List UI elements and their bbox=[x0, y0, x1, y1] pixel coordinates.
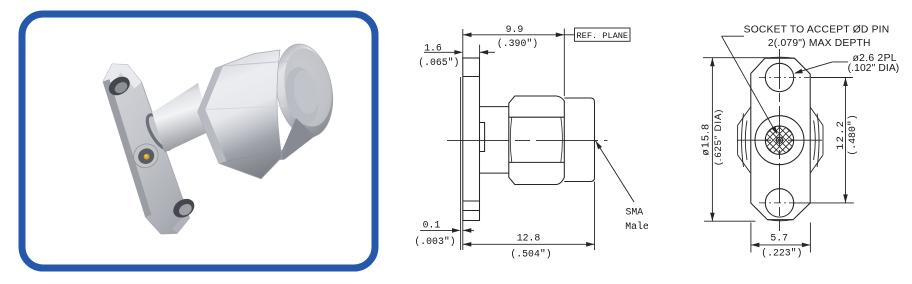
dim 12.2 bbox=[811, 77, 853, 79]
svg-text:ø15.8: ø15.8 bbox=[700, 123, 712, 156]
svg-text:2(.079") MAX DEPTH: 2(.079") MAX DEPTH bbox=[768, 38, 871, 49]
dim 9.9 bbox=[463, 34, 564, 36]
bottom mounting hole bbox=[765, 189, 793, 217]
top mounting hole bbox=[765, 63, 793, 91]
photo frame bbox=[22, 14, 375, 268]
end cap bore shadow bbox=[281, 65, 323, 128]
flange bottom edge strip bbox=[172, 215, 190, 234]
flange left edge strip bbox=[103, 79, 152, 217]
svg-text:SOCKET TO ACCEPT ØD PIN: SOCKET TO ACCEPT ØD PIN bbox=[744, 25, 890, 36]
svg-text:12.2: 12.2 bbox=[835, 120, 847, 150]
0.1 step face bbox=[460, 77, 462, 250]
svg-text:(.003″): (.003″) bbox=[414, 236, 455, 247]
flange outline front bbox=[751, 58, 810, 220]
front view vertical centerline bbox=[779, 49, 781, 231]
end cap rim line bbox=[269, 39, 339, 141]
dim 0.1 bbox=[420, 229, 452, 231]
svg-text:9.9: 9.9 bbox=[506, 24, 524, 35]
dim 1.6 bbox=[479, 45, 481, 58]
ref plane box bbox=[563, 29, 565, 97]
svg-text:(.102" DIA): (.102" DIA) bbox=[848, 63, 900, 74]
interface circles bbox=[755, 116, 804, 165]
hex facet lines bbox=[509, 116, 565, 118]
dim 5.7 bbox=[750, 223, 752, 253]
side view centerline bbox=[447, 139, 608, 141]
flange top/bottom arcs bbox=[767, 57, 794, 58]
svg-text:(.390″): (.390″) bbox=[497, 38, 538, 49]
flange plate side bbox=[463, 58, 480, 221]
svg-text:12.8: 12.8 bbox=[517, 232, 541, 243]
svg-text:5.7: 5.7 bbox=[770, 232, 788, 243]
socket note leader bbox=[722, 35, 744, 37]
end cap face bbox=[278, 45, 337, 131]
svg-text:(.065″): (.065″) bbox=[418, 57, 459, 68]
hex facet edges bbox=[223, 61, 288, 66]
hex bulge left bbox=[737, 125, 739, 154]
svg-text:0.1: 0.1 bbox=[423, 220, 441, 231]
svg-text:(.223″): (.223″) bbox=[761, 248, 802, 259]
svg-text:REF. PLANE: REF. PLANE bbox=[577, 31, 629, 41]
barrel bbox=[480, 106, 509, 108]
hex bulge right bbox=[822, 125, 824, 154]
hex-cap lower junction fill bbox=[278, 118, 315, 160]
end cylinder bbox=[564, 98, 594, 182]
flange hole top bbox=[105, 73, 133, 99]
flange plate face bbox=[103, 64, 190, 234]
hex body bbox=[509, 96, 565, 185]
center boss bbox=[129, 139, 163, 172]
dielectric crosshatch bbox=[734, 120, 825, 160]
connector 3d render bbox=[103, 39, 340, 234]
end cap body bbox=[269, 39, 339, 141]
barrel junction shadow bbox=[143, 111, 177, 153]
svg-text:(.480″): (.480″) bbox=[847, 114, 858, 155]
svg-text:Male: Male bbox=[625, 221, 649, 232]
flange top edge strip bbox=[103, 64, 142, 89]
svg-text:1.6: 1.6 bbox=[424, 43, 442, 54]
dim 12.8 bbox=[463, 243, 595, 245]
flange hole bottom bbox=[170, 195, 198, 221]
gold contact bbox=[144, 154, 150, 160]
svg-text:(.625″ DIA): (.625″ DIA) bbox=[713, 109, 724, 166]
hex left end rim bbox=[198, 66, 227, 163]
svg-text:(.504″): (.504″) bbox=[510, 249, 551, 260]
left extension line bbox=[462, 29, 464, 58]
flange tangent lines bbox=[463, 76, 480, 78]
dim dia 15.8 bbox=[703, 57, 772, 59]
SMA Male leader bbox=[596, 141, 634, 202]
dia 2.6 leader bbox=[796, 62, 833, 73]
barrel bbox=[152, 83, 211, 153]
svg-text:SMA: SMA bbox=[625, 207, 643, 218]
boss bbox=[480, 123, 485, 152]
right extension line bbox=[594, 182, 596, 251]
front view horizontal centerline bbox=[737, 139, 822, 141]
hex nut bbox=[198, 50, 282, 179]
